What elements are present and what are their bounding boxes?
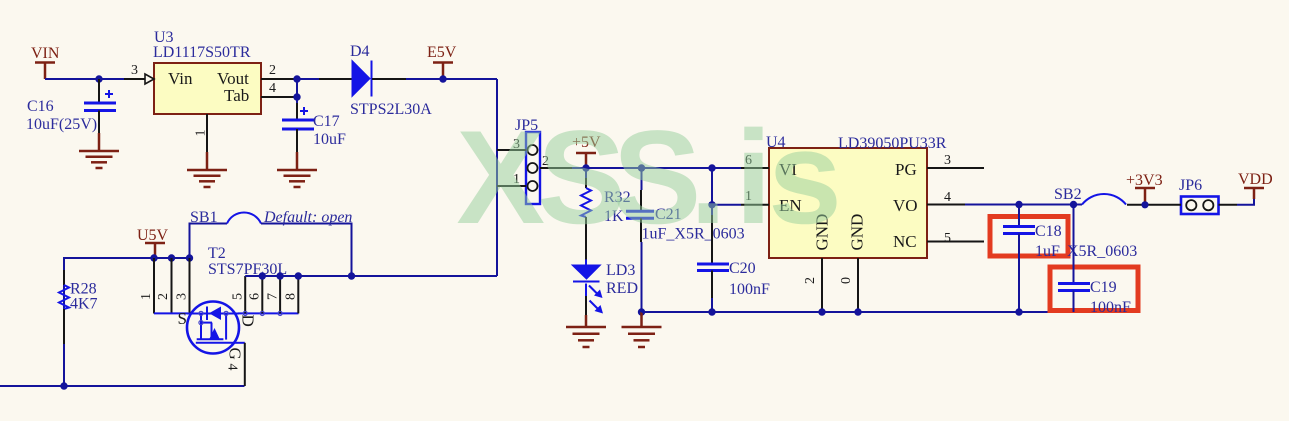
pin 1 (JP5) xyxy=(497,172,526,187)
svg-text:GND: GND xyxy=(848,214,867,251)
svg-text:2: 2 xyxy=(803,277,818,284)
pin 2 (T2) xyxy=(156,258,172,314)
capacitor C21 xyxy=(626,168,745,312)
wire EN tap xyxy=(712,204,741,206)
wire pin2 to pin4 vertical xyxy=(296,79,298,103)
node GND pins junctions xyxy=(818,308,825,315)
svg-text:RED: RED xyxy=(606,280,638,297)
capacitor C17 xyxy=(282,103,346,152)
wire U5V rail xyxy=(64,258,190,386)
highlight box C18 xyxy=(990,217,1068,257)
svg-text:D4: D4 xyxy=(350,43,370,60)
svg-text:.: . xyxy=(690,104,727,252)
svg-text:S: S xyxy=(178,309,187,328)
svg-text:4: 4 xyxy=(225,364,240,371)
pin 3 (U3 Vin) xyxy=(124,63,154,84)
wire bottom rail xyxy=(0,385,245,387)
wire Vout to D4 xyxy=(297,78,319,80)
node Vout junctions xyxy=(293,75,300,82)
wire JP6 to VDD xyxy=(1237,199,1254,205)
solder bridge SB1 xyxy=(190,209,353,276)
wire SB2 to JP6 xyxy=(1127,204,1161,206)
svg-text:LD39050PU33R: LD39050PU33R xyxy=(838,135,947,152)
svg-text:C17: C17 xyxy=(313,113,340,130)
svg-text:U5V: U5V xyxy=(137,227,169,244)
pin 7 (T2) xyxy=(266,276,281,313)
pin 2 (U4 GND) xyxy=(803,258,822,312)
node R28 bottom junction xyxy=(60,382,67,389)
power port E5V xyxy=(427,44,457,79)
ground (rail) xyxy=(622,312,662,347)
transistor T2 STS7PF30L xyxy=(208,245,287,278)
ground (C16) xyxy=(79,133,119,168)
svg-text:7: 7 xyxy=(266,293,281,300)
pin 3 (T2) xyxy=(175,258,190,314)
svg-text:Tab: Tab xyxy=(224,86,249,105)
svg-text:1: 1 xyxy=(194,130,209,137)
svg-text:C19: C19 xyxy=(1090,279,1117,296)
LED LD3 xyxy=(572,260,638,328)
solder bridge SB2 xyxy=(1054,186,1126,205)
pin 0 (U4 GND) xyxy=(839,258,858,312)
svg-text:8: 8 xyxy=(284,293,299,300)
wire VO net xyxy=(965,204,1082,206)
junction node C16 tap xyxy=(95,75,102,82)
svg-text:VDD: VDD xyxy=(1238,171,1273,188)
IC U4 LD39050PU33R xyxy=(766,134,947,258)
svg-text:C16: C16 xyxy=(27,98,54,115)
svg-text:Vin: Vin xyxy=(168,69,193,88)
node C21 top junction xyxy=(638,164,645,171)
svg-text:5: 5 xyxy=(231,293,246,300)
node C20 bottom junction xyxy=(708,308,715,315)
node C18 bottom junction xyxy=(1015,308,1022,315)
node C20 top junction xyxy=(708,164,715,171)
svg-text:SB1: SB1 xyxy=(190,209,218,226)
svg-text:LD3: LD3 xyxy=(606,262,635,279)
watermark XSS.is xyxy=(456,104,842,252)
svg-text:E5V: E5V xyxy=(427,44,457,61)
node EN tap junction xyxy=(708,201,715,208)
svg-text:LD1117S50TR: LD1117S50TR xyxy=(153,44,251,61)
svg-text:4: 4 xyxy=(269,81,276,96)
svg-text:C18: C18 xyxy=(1035,223,1062,240)
wire GND rail xyxy=(642,311,1074,313)
svg-text:1: 1 xyxy=(139,293,154,300)
svg-text:STPS2L30A: STPS2L30A xyxy=(350,101,432,118)
svg-text:5: 5 xyxy=(944,231,951,246)
power port U5V xyxy=(137,227,169,258)
pin 3 (JP5) xyxy=(497,137,526,152)
node +5V junction xyxy=(582,164,589,171)
svg-text:T2: T2 xyxy=(208,245,226,262)
svg-text:SB2: SB2 xyxy=(1054,186,1082,203)
pin 1 (T2) xyxy=(139,258,154,314)
node C18 top junction xyxy=(1015,201,1022,208)
pin 5 (U4 NC) xyxy=(927,231,984,246)
svg-text:10uF(25V): 10uF(25V) xyxy=(26,116,97,133)
svg-text:X5R_0603: X5R_0603 xyxy=(1067,243,1137,260)
svg-text:100nF: 100nF xyxy=(729,281,770,298)
pin (JP6 left) xyxy=(1161,204,1181,206)
svg-text:VIN: VIN xyxy=(31,45,60,62)
node C19 top junction xyxy=(1070,201,1077,208)
svg-text:10uF: 10uF xyxy=(313,131,346,148)
resistor R28 xyxy=(59,270,98,386)
wire drain net xyxy=(245,275,497,277)
wire +5V rail xyxy=(572,167,769,169)
capacitor C20 xyxy=(697,168,770,312)
power port VDD xyxy=(1238,171,1273,188)
node SB1 to drain junction xyxy=(348,272,355,279)
header JP5 xyxy=(515,117,540,204)
node U5V junctions xyxy=(150,254,157,261)
op-amp U3 regulator LD1117S50TR xyxy=(153,29,261,114)
svg-text:s: s xyxy=(768,104,842,252)
svg-text:0: 0 xyxy=(839,277,854,284)
mosfet body T2 xyxy=(187,302,282,354)
svg-text:2: 2 xyxy=(156,293,171,300)
svg-text:3: 3 xyxy=(944,153,951,168)
svg-text:+3V3: +3V3 xyxy=(1126,172,1163,189)
svg-text:2: 2 xyxy=(269,63,276,78)
svg-text:NC: NC xyxy=(893,232,917,251)
pin 6 (T2) xyxy=(248,276,263,313)
svg-text:VO: VO xyxy=(893,196,918,215)
pin 1 (U4 EN) xyxy=(741,189,769,205)
svg-text:S: S xyxy=(613,104,702,252)
pin (JP6 right) xyxy=(1219,204,1238,206)
pin 5 (T2) xyxy=(231,276,246,313)
node GND rail left junction xyxy=(638,308,645,315)
pin 1 (U3 GND) xyxy=(194,114,209,152)
svg-text:3: 3 xyxy=(131,63,138,78)
svg-text:JP6: JP6 xyxy=(1179,177,1202,194)
pin 2 (JP5) xyxy=(540,154,572,169)
pin 8 (T2) xyxy=(284,276,299,313)
svg-text:1uF: 1uF xyxy=(1035,243,1060,260)
highlight box C19 xyxy=(1050,267,1138,311)
node +3V3 junction xyxy=(1141,201,1148,208)
capacitor C19 xyxy=(1058,205,1131,317)
header JP6 xyxy=(1179,177,1219,214)
pin 4 (U3 Tab) xyxy=(261,81,297,97)
node pins 6,7,8 junctions xyxy=(259,272,266,279)
ground (U3) xyxy=(187,152,227,187)
node E5V junction xyxy=(439,75,446,82)
wire source bus xyxy=(154,312,188,314)
svg-text:i: i xyxy=(735,104,772,252)
wire vertical E5V rail to T2 drain xyxy=(496,79,498,276)
power port +5V xyxy=(572,134,601,168)
pin 4 (T2 gate) xyxy=(225,343,245,386)
svg-text:C20: C20 xyxy=(729,260,756,277)
svg-text:4: 4 xyxy=(944,190,951,205)
pin 4 (U4 VO) xyxy=(927,190,965,205)
svg-text:G: G xyxy=(226,348,245,360)
pin 6 (U4 VI) xyxy=(741,153,769,168)
pin 2 (U3 Vout) xyxy=(261,63,297,79)
diode D4 STPS2L30A xyxy=(319,43,432,118)
power port +3V3 xyxy=(1126,172,1163,205)
capacitor C16 xyxy=(26,79,116,133)
svg-text:PG: PG xyxy=(895,160,917,179)
svg-text:Default: open: Default: open xyxy=(263,209,352,226)
svg-text:6: 6 xyxy=(248,293,263,300)
wire VIN to U3 pin 3 xyxy=(45,78,124,80)
wire D4 to corner xyxy=(406,78,497,80)
svg-text:D: D xyxy=(239,315,258,327)
svg-text:4K7: 4K7 xyxy=(70,296,98,313)
wire drain bus xyxy=(238,312,299,314)
capacitor C18 xyxy=(1003,205,1062,313)
resistor R32 xyxy=(581,168,631,260)
svg-text:3: 3 xyxy=(175,293,190,300)
pin 3 (U4 PG) xyxy=(927,153,984,168)
ground (C17) xyxy=(277,152,317,187)
svg-text:100nF: 100nF xyxy=(1090,299,1131,316)
svg-text:X: X xyxy=(456,104,545,252)
ground (LD3) xyxy=(566,327,606,347)
power port VIN xyxy=(31,45,60,79)
